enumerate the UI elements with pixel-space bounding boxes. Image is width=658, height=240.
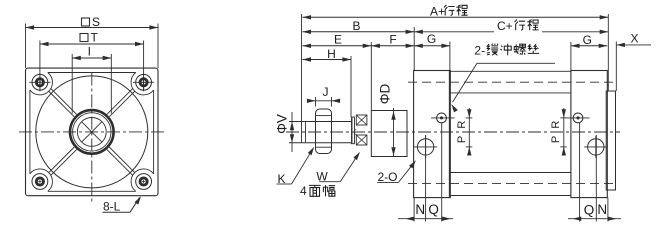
svg-text:N: N [597, 202, 607, 217]
svg-text:H: H [327, 47, 336, 61]
svg-text:A+: A+ [430, 4, 445, 18]
svg-text:Q: Q [584, 202, 595, 217]
svg-text:N: N [415, 202, 425, 217]
svg-text:R: R [550, 121, 562, 129]
svg-text:G: G [583, 33, 592, 47]
svg-text:2-O: 2-O [378, 170, 398, 184]
svg-text:C+: C+ [497, 19, 513, 33]
svg-text:X: X [630, 32, 638, 46]
svg-text:E: E [334, 33, 342, 47]
svg-text:4: 4 [300, 184, 307, 198]
svg-text:B: B [352, 19, 360, 33]
svg-text:T: T [91, 31, 99, 45]
svg-text:G: G [427, 32, 436, 46]
svg-text:ΦV: ΦV [275, 114, 290, 134]
svg-text:W: W [316, 169, 328, 183]
svg-text:8-L: 8-L [103, 200, 121, 214]
svg-text:2-: 2- [474, 43, 485, 57]
svg-text:P: P [550, 136, 562, 143]
svg-text:R: R [456, 121, 468, 129]
svg-text:Q: Q [428, 202, 439, 217]
svg-text:J: J [323, 85, 329, 99]
svg-text:ΦD: ΦD [378, 83, 393, 104]
svg-text:P: P [456, 136, 468, 143]
svg-text:F: F [389, 33, 396, 47]
svg-text:S: S [92, 15, 100, 29]
svg-text:I: I [88, 45, 91, 59]
